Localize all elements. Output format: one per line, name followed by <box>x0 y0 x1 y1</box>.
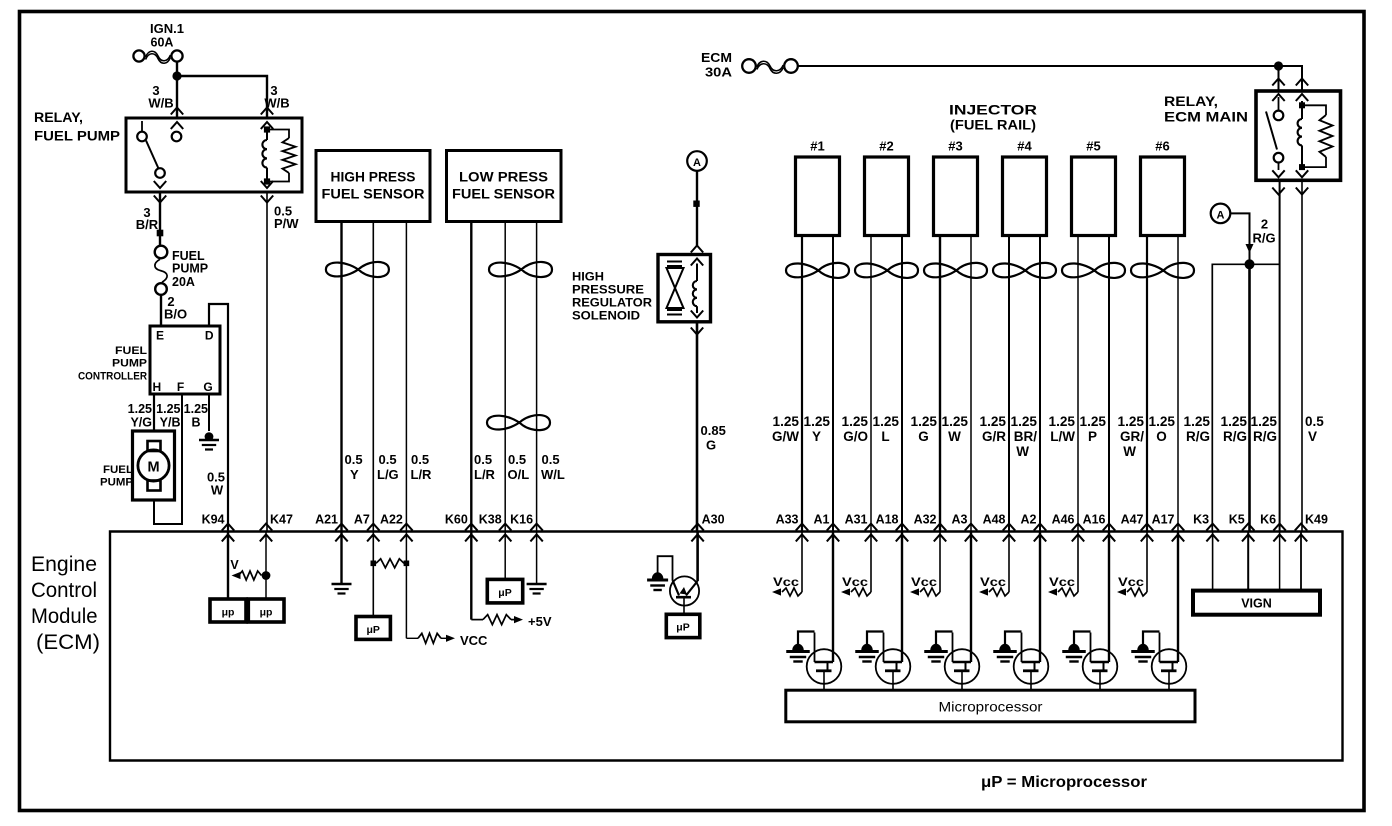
svg-text:G/W: G/W <box>772 429 799 444</box>
svg-text:FUEL: FUEL <box>115 345 147 357</box>
wire K16 to ground <box>536 532 538 584</box>
wire 1.25 G/W <box>801 236 803 532</box>
ground (injector #5 driver) <box>1074 632 1091 646</box>
ground (injector #1 driver) <box>798 632 815 646</box>
svg-text:A3: A3 <box>952 513 968 527</box>
junction <box>1245 259 1255 269</box>
svg-text:RELAY,: RELAY, <box>1164 94 1218 109</box>
svg-text:D: D <box>205 329 214 343</box>
wire 1.25 G <box>939 236 941 532</box>
fuel pump controller U1 <box>78 326 220 394</box>
wire W/B left branch <box>176 62 178 118</box>
svg-text:Y: Y <box>812 429 821 444</box>
driver transistor injector #5 <box>1083 532 1118 691</box>
wire 1.25 O <box>1177 236 1179 532</box>
pin A46 <box>1052 513 1085 542</box>
wire H 1.25 Y/G <box>153 394 155 431</box>
svg-text:L: L <box>881 429 889 444</box>
ground (A30 driver) <box>652 572 664 579</box>
svg-text:K49: K49 <box>1305 513 1328 527</box>
pin A17 <box>1152 513 1185 542</box>
svg-text:V: V <box>230 558 239 572</box>
driver transistor injector #2 <box>876 532 911 691</box>
svg-text:Microprocessor: Microprocessor <box>939 699 1043 715</box>
ground (K16) <box>527 583 547 586</box>
svg-text:H: H <box>153 380 162 394</box>
svg-text:#2: #2 <box>879 139 893 154</box>
svg-text:CONTROLLER: CONTROLLER <box>78 371 147 383</box>
fuse ECM 30A <box>701 50 798 80</box>
svg-text:O/L: O/L <box>508 467 530 482</box>
svg-text:μP: μP <box>366 624 379 636</box>
svg-text:1.25: 1.25 <box>1011 414 1038 429</box>
motor FUEL PUMP M1 <box>100 431 175 500</box>
svg-text:A21: A21 <box>315 513 338 527</box>
svg-text:A31: A31 <box>845 513 868 527</box>
svg-text:B/R: B/R <box>136 217 159 232</box>
svg-text:IGN.1: IGN.1 <box>150 22 184 36</box>
splice marker (arrow) <box>1246 244 1254 253</box>
ground (A21) <box>332 583 352 586</box>
svg-text:K6: K6 <box>1260 513 1276 527</box>
svg-text:P/W: P/W <box>274 216 299 231</box>
svg-text:HIGH: HIGH <box>572 272 604 284</box>
wire G 1.25 B <box>208 394 210 431</box>
svg-text:A48: A48 <box>983 513 1006 527</box>
pin K94 <box>202 513 235 542</box>
svg-text:FUEL: FUEL <box>103 464 133 476</box>
uP box (K47) <box>248 599 284 622</box>
svg-text:1.25: 1.25 <box>942 414 969 429</box>
svg-text:0.5: 0.5 <box>474 452 492 467</box>
twisted pair (high press sensor) <box>326 262 389 277</box>
svg-text:FUEL SENSOR: FUEL SENSOR <box>452 187 555 202</box>
svg-text:1.25: 1.25 <box>1080 414 1107 429</box>
wire K5 to VIGN <box>1247 532 1249 591</box>
wire A22 to VCC pullup <box>405 532 407 639</box>
svg-text:A30: A30 <box>702 513 725 527</box>
svg-text:R/G: R/G <box>1186 429 1210 444</box>
wire F 1.25 Y/B + motor return <box>154 394 182 524</box>
svg-text:1.25: 1.25 <box>1251 414 1278 429</box>
svg-text:B/O: B/O <box>164 307 187 322</box>
twisted pair (low press sensor, lower) <box>487 415 550 430</box>
svg-text:1.25: 1.25 <box>128 402 152 416</box>
svg-text:1.25: 1.25 <box>980 414 1007 429</box>
connector chevrons solenoid top <box>691 246 703 253</box>
svg-text:R/G: R/G <box>1253 231 1276 246</box>
HIGH PRESS FUEL SENSOR <box>316 151 430 222</box>
svg-text:#1: #1 <box>810 139 824 154</box>
svg-text:R/G: R/G <box>1253 429 1277 444</box>
svg-text:1.25: 1.25 <box>1118 414 1145 429</box>
svg-text:W/B: W/B <box>148 96 173 111</box>
wire K38 to uP <box>504 532 506 580</box>
pin K6 <box>1260 513 1286 542</box>
svg-text:0.85: 0.85 <box>701 423 726 438</box>
twisted pair injector #2 <box>855 263 918 278</box>
svg-text:VIGN: VIGN <box>1241 597 1272 611</box>
driver transistor Q7 (A30) <box>670 576 699 614</box>
wire D to K94 (0.5 W) <box>209 304 228 532</box>
svg-text:μp: μp <box>260 607 273 619</box>
pin A3 <box>952 513 978 542</box>
wire to solenoid <box>696 171 698 246</box>
ground (injector #4 driver) <box>1005 632 1022 646</box>
pin A7 <box>354 513 380 542</box>
Vcc pullup injector #3 <box>910 532 940 597</box>
splice marker <box>693 201 699 207</box>
wire K94 to uP <box>227 532 229 600</box>
svg-text:SOLENOID: SOLENOID <box>572 311 640 323</box>
wire 0.5 L/G (A7) <box>372 222 374 532</box>
wire 0.5 O/L (K38) <box>504 222 506 532</box>
pin K60 <box>445 513 478 542</box>
twisted pair injector #5 <box>1062 263 1125 278</box>
wire 1.25 G/R <box>1008 236 1010 532</box>
node A (right) <box>1211 204 1231 224</box>
wire 0.85 G (A30) <box>696 322 699 532</box>
svg-text:B: B <box>191 416 200 430</box>
injector #3 <box>934 139 978 236</box>
wire W/B right branch <box>181 76 267 118</box>
ECM (Engine Control Module) box <box>31 532 1343 761</box>
svg-text:ECM MAIN: ECM MAIN <box>1164 110 1248 125</box>
svg-text:FUEL SENSOR: FUEL SENSOR <box>322 187 425 202</box>
driver transistor injector #6 <box>1152 532 1187 691</box>
svg-text:G/R: G/R <box>982 429 1006 444</box>
pin K3 <box>1193 513 1219 542</box>
twisted pair injector #4 <box>993 263 1056 278</box>
pin A21 <box>315 513 348 542</box>
ground (injector #3 driver) <box>936 632 953 646</box>
wire 1.25 W <box>970 236 972 532</box>
emitter wire to ground <box>658 556 673 580</box>
Vcc pullup injector #2 <box>841 532 871 597</box>
pin A32 <box>914 513 947 542</box>
junction <box>172 71 181 80</box>
Vcc pullup injector #5 <box>1048 532 1078 597</box>
svg-text:20A: 20A <box>172 275 195 289</box>
pin A47 <box>1121 513 1154 542</box>
svg-text:M: M <box>147 460 159 476</box>
HIGH PRESSURE REGULATOR SOLENOID <box>572 255 711 323</box>
svg-text:PUMP: PUMP <box>100 477 133 489</box>
svg-text:W: W <box>1123 444 1136 459</box>
svg-text:E: E <box>156 329 164 343</box>
wire K3 to VIGN <box>1212 532 1214 591</box>
svg-text:1.25: 1.25 <box>873 414 900 429</box>
svg-text:W: W <box>211 483 224 498</box>
svg-text:Engine: Engine <box>31 553 97 576</box>
twisted pair injector #1 <box>786 263 849 278</box>
Microprocessor box <box>786 690 1195 722</box>
svg-text:#5: #5 <box>1086 139 1100 154</box>
svg-text:L/W: L/W <box>1050 429 1075 444</box>
svg-text:60A: 60A <box>151 36 174 50</box>
pin K49 <box>1295 513 1328 542</box>
wire node A to junction <box>1231 213 1250 262</box>
wire 0.5 L/R (K60) <box>470 222 472 532</box>
svg-text:1.25: 1.25 <box>156 402 180 416</box>
svg-text:A17: A17 <box>1152 513 1175 527</box>
svg-text:0.5: 0.5 <box>542 452 560 467</box>
wire 1.25 L <box>901 236 903 532</box>
wire 1.25 G/O <box>870 236 872 532</box>
fuse IGN.1 60A <box>133 22 184 63</box>
svg-text:1.25: 1.25 <box>184 402 208 416</box>
uP box (K38) <box>487 579 522 603</box>
wire 0.5 P/W relay to K47 <box>266 192 268 532</box>
svg-text:μP: μP <box>676 622 689 634</box>
svg-text:K94: K94 <box>202 513 225 527</box>
node A (top of solenoid) <box>687 151 707 171</box>
svg-text:A32: A32 <box>914 513 937 527</box>
svg-text:G/O: G/O <box>843 429 868 444</box>
svg-text:1.25: 1.25 <box>773 414 800 429</box>
svg-text:A1: A1 <box>814 513 830 527</box>
svg-text:A: A <box>1217 209 1225 221</box>
twisted pair injector #3 <box>924 263 987 278</box>
svg-text:PUMP: PUMP <box>172 262 208 276</box>
Vcc pullup injector #6 <box>1117 532 1147 597</box>
svg-text:1.25: 1.25 <box>1184 414 1211 429</box>
relay FUEL PUMP <box>34 108 302 203</box>
pin A16 <box>1083 513 1116 542</box>
uP box (A30) <box>666 614 700 637</box>
svg-text:G: G <box>203 380 212 394</box>
wire 0.5 Y (A21) <box>340 222 342 532</box>
wire horizontal to K3 / relay switch <box>1212 264 1279 531</box>
svg-text:1.25: 1.25 <box>1221 414 1248 429</box>
wire 1.25 BR/ <box>1039 236 1041 532</box>
svg-text:O: O <box>1156 429 1167 444</box>
injector #6 <box>1141 139 1185 236</box>
pin K5 <box>1229 513 1255 542</box>
svg-text:A22: A22 <box>380 513 403 527</box>
svg-text:PRESSURE: PRESSURE <box>572 285 644 297</box>
svg-text:0.5: 0.5 <box>1305 414 1324 429</box>
pin A2 <box>1021 513 1047 542</box>
svg-text:2: 2 <box>1261 217 1268 232</box>
svg-text:VCC: VCC <box>460 633 488 648</box>
svg-text:INJECTOR: INJECTOR <box>949 103 1037 118</box>
svg-text:#3: #3 <box>948 139 962 154</box>
svg-text:K16: K16 <box>510 513 533 527</box>
wire K49 to VIGN <box>1300 532 1302 591</box>
wire A7 to uP <box>372 532 374 617</box>
splice marker <box>157 230 164 237</box>
wire 1.25 R/G to K5 <box>1248 264 1251 531</box>
internal resistor A7-A22 <box>371 561 377 567</box>
svg-text:μP = Microprocessor: μP = Microprocessor <box>981 774 1147 791</box>
svg-text:0.5: 0.5 <box>379 452 397 467</box>
svg-text:1.25: 1.25 <box>1149 414 1176 429</box>
pin A18 <box>876 513 909 542</box>
wire ECM fuse to relay ECM MAIN <box>798 66 1302 91</box>
svg-text:RELAY,: RELAY, <box>34 110 83 125</box>
svg-text:P: P <box>1088 429 1097 444</box>
svg-text:W: W <box>1016 444 1029 459</box>
svg-text:Y/G: Y/G <box>130 416 152 430</box>
wire 1.25 L/W <box>1077 236 1079 532</box>
svg-text:μP: μP <box>498 587 511 599</box>
wire 1.25 Y <box>832 236 834 532</box>
svg-text:0.5: 0.5 <box>345 452 363 467</box>
svg-text:G: G <box>918 429 929 444</box>
svg-text:K5: K5 <box>1229 513 1245 527</box>
svg-text:1.25: 1.25 <box>911 414 938 429</box>
svg-text:L/R: L/R <box>474 467 496 482</box>
connector chevrons solenoid bottom <box>691 328 703 335</box>
ground (controller G pin) <box>205 432 214 441</box>
twisted pair (low press sensor, upper) <box>489 262 552 277</box>
svg-text:K38: K38 <box>479 513 502 527</box>
wire K47 to uP <box>265 532 267 600</box>
svg-text:Y: Y <box>350 467 359 482</box>
svg-text:A47: A47 <box>1121 513 1144 527</box>
pin A48 <box>983 513 1016 542</box>
uP box (K94) <box>210 599 246 622</box>
svg-text:HIGH PRESS: HIGH PRESS <box>331 170 416 185</box>
uP box (A7) <box>356 617 390 640</box>
wire 3 B/R <box>159 192 161 246</box>
svg-text:0.5: 0.5 <box>411 452 429 467</box>
pin K47 <box>260 513 293 542</box>
svg-text:L/R: L/R <box>411 467 433 482</box>
svg-text:A46: A46 <box>1052 513 1075 527</box>
svg-text:K60: K60 <box>445 513 468 527</box>
fuse FUEL PUMP 20A <box>155 246 208 295</box>
driver transistor injector #3 <box>945 532 980 691</box>
svg-text:#4: #4 <box>1017 139 1032 154</box>
svg-text:R/G: R/G <box>1223 429 1247 444</box>
svg-text:L/G: L/G <box>377 467 399 482</box>
pin K38 <box>479 513 512 542</box>
Vcc pullup injector #4 <box>979 532 1009 597</box>
ground (injector #6 driver) <box>1143 632 1160 646</box>
wire A30 to driver transistor <box>696 532 699 582</box>
pin A22 <box>380 513 413 542</box>
svg-text:1.25: 1.25 <box>804 414 831 429</box>
svg-text:GR/: GR/ <box>1120 429 1144 444</box>
svg-text:#6: #6 <box>1155 139 1169 154</box>
injector #5 <box>1072 139 1116 236</box>
wire relay coil to K49 (0.5 V) <box>1301 180 1303 531</box>
junction <box>1274 61 1283 70</box>
svg-text:REGULATOR: REGULATOR <box>572 298 653 310</box>
Vcc pullup injector #1 <box>772 532 802 597</box>
pin A31 <box>845 513 878 542</box>
connector chevrons relay ECM MAIN bottom <box>1272 188 1284 195</box>
svg-text:0.5: 0.5 <box>508 452 526 467</box>
svg-text:Module: Module <box>31 605 98 628</box>
wire 0.5 W/L (K16) <box>536 222 538 532</box>
wire K6 to VIGN <box>1279 532 1281 591</box>
svg-text:K47: K47 <box>270 513 293 527</box>
svg-text:FUEL PUMP: FUEL PUMP <box>34 129 120 144</box>
svg-text:Control: Control <box>31 579 97 602</box>
pin A30 <box>691 513 724 542</box>
wire 1.25 P <box>1108 236 1110 532</box>
svg-text:LOW PRESS: LOW PRESS <box>459 170 548 185</box>
svg-text:PUMP: PUMP <box>112 358 147 370</box>
svg-text:V: V <box>1308 429 1317 444</box>
twisted pair injector #6 <box>1131 263 1194 278</box>
wire K60 to +5V pullup <box>470 532 472 620</box>
wire A21 to ground <box>340 532 342 584</box>
svg-text:(FUEL RAIL): (FUEL RAIL) <box>950 118 1036 133</box>
svg-text:W/L: W/L <box>541 467 565 482</box>
LOW PRESS FUEL SENSOR <box>447 151 562 222</box>
pin A1 <box>814 513 840 542</box>
svg-text:BR/: BR/ <box>1014 429 1037 444</box>
wire relay switch to K6 <box>1279 180 1281 531</box>
svg-text:A33: A33 <box>776 513 799 527</box>
wire 0.5 L/R (A22) <box>405 222 407 532</box>
svg-text:(ECM): (ECM) <box>36 631 100 654</box>
driver transistor injector #1 <box>807 532 842 691</box>
driver transistor injector #4 <box>1014 532 1049 691</box>
pin K16 <box>510 513 543 542</box>
injector #1 <box>796 139 840 236</box>
svg-text:W: W <box>948 429 961 444</box>
relay ECM MAIN <box>1164 79 1341 181</box>
svg-text:A7: A7 <box>354 513 370 527</box>
svg-text:ECM: ECM <box>701 50 732 65</box>
svg-text:A: A <box>693 157 701 169</box>
svg-text:+5V: +5V <box>528 614 552 629</box>
VIGN box <box>1193 591 1320 615</box>
svg-text:1.25: 1.25 <box>1049 414 1076 429</box>
pin A33 <box>776 513 809 542</box>
svg-text:G: G <box>706 438 716 453</box>
svg-text:F: F <box>177 380 184 394</box>
svg-text:A18: A18 <box>876 513 899 527</box>
injector #4 <box>1003 139 1047 236</box>
svg-text:A2: A2 <box>1021 513 1037 527</box>
svg-text:K3: K3 <box>1193 513 1209 527</box>
injector #2 <box>865 139 909 236</box>
svg-text:μp: μp <box>222 607 235 619</box>
ground (injector #2 driver) <box>867 632 884 646</box>
svg-text:Y/B: Y/B <box>160 416 181 430</box>
wire 2 B/O <box>160 295 162 326</box>
wire 1.25 GR/ <box>1146 236 1148 532</box>
svg-text:1.25: 1.25 <box>842 414 869 429</box>
svg-text:30A: 30A <box>705 65 733 80</box>
svg-text:A16: A16 <box>1083 513 1106 527</box>
